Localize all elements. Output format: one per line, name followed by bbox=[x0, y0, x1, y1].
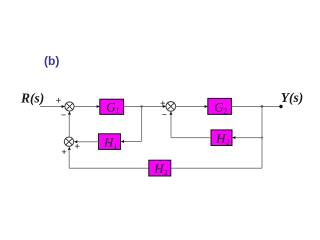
wire bottom feedback left segment bbox=[69, 167, 149, 169]
wire H1 output to S3 bbox=[77, 141, 98, 143]
summing junction S3 bbox=[64, 137, 73, 146]
arrowhead into S3 bottom bbox=[68, 147, 71, 150]
plus sign at S2 input bbox=[161, 101, 165, 106]
arrowhead into S3 right bbox=[74, 140, 77, 143]
plus sign at S3 bottom input bbox=[62, 150, 66, 154]
plus sign at S3 right input bbox=[75, 144, 79, 148]
wire S1 to block G1 bbox=[74, 106, 97, 108]
block H2 bbox=[211, 130, 232, 147]
arrowhead into H2 right bbox=[232, 136, 235, 139]
minus sign at S1 lower input bbox=[62, 114, 66, 116]
block H3 bbox=[149, 160, 171, 177]
wire bottom feedback right segment bbox=[171, 167, 262, 169]
svg-text:H: H bbox=[103, 134, 114, 149]
arrowhead into S2 left bbox=[163, 105, 166, 108]
block G1 bbox=[100, 99, 124, 115]
wire G1 to summing junction S2 bbox=[124, 106, 163, 108]
svg-text:3: 3 bbox=[163, 169, 168, 177]
plus sign at S1 input bbox=[56, 98, 61, 103]
node at H2 branch bbox=[261, 137, 263, 139]
wire S2 to block G2 bbox=[176, 106, 205, 108]
label R(s) bbox=[20, 91, 44, 106]
output dot at Y(s) bbox=[279, 105, 282, 108]
wire bottom feedback up into S3 bbox=[68, 150, 70, 168]
arrowhead into G1 bbox=[97, 105, 100, 108]
minus sign at S2 lower input bbox=[162, 114, 166, 116]
svg-text:H: H bbox=[215, 130, 226, 145]
svg-text:1: 1 bbox=[116, 107, 120, 115]
block G2 bbox=[208, 98, 232, 115]
wire R(s) to summing junction S1 bbox=[40, 106, 62, 108]
summing junction S1 bbox=[65, 102, 74, 111]
arrowhead into S1 bottom bbox=[68, 111, 71, 114]
wire H2 output to S2 bbox=[171, 115, 211, 138]
wire S3 output up to S1 bbox=[68, 115, 70, 137]
arrowhead into S1 left bbox=[62, 105, 65, 108]
summing junction S2 bbox=[166, 102, 176, 112]
svg-text:(b): (b) bbox=[44, 54, 59, 68]
label (b) bbox=[44, 54, 59, 68]
svg-text:2: 2 bbox=[226, 138, 230, 146]
label Y(s) bbox=[281, 90, 304, 105]
wire takeoff after G1 down to H1 bbox=[124, 107, 142, 142]
block H1 bbox=[99, 134, 121, 151]
arrowhead into G2 bbox=[205, 105, 208, 108]
arrowhead into H1 right bbox=[121, 140, 124, 143]
svg-text:Y(s): Y(s) bbox=[281, 90, 304, 105]
svg-text:2: 2 bbox=[224, 107, 228, 115]
node after G1 bbox=[141, 105, 143, 107]
svg-text:H: H bbox=[153, 161, 164, 176]
svg-text:R(s): R(s) bbox=[20, 91, 44, 106]
node takeoff after G2 bbox=[261, 105, 263, 107]
svg-text:1: 1 bbox=[114, 142, 118, 150]
wire takeoff node down right side bbox=[261, 107, 263, 169]
wire G2 to Y(s) bbox=[231, 106, 281, 108]
arrowhead into S2 bottom bbox=[169, 111, 172, 114]
wire branch to H2 bbox=[235, 137, 262, 139]
